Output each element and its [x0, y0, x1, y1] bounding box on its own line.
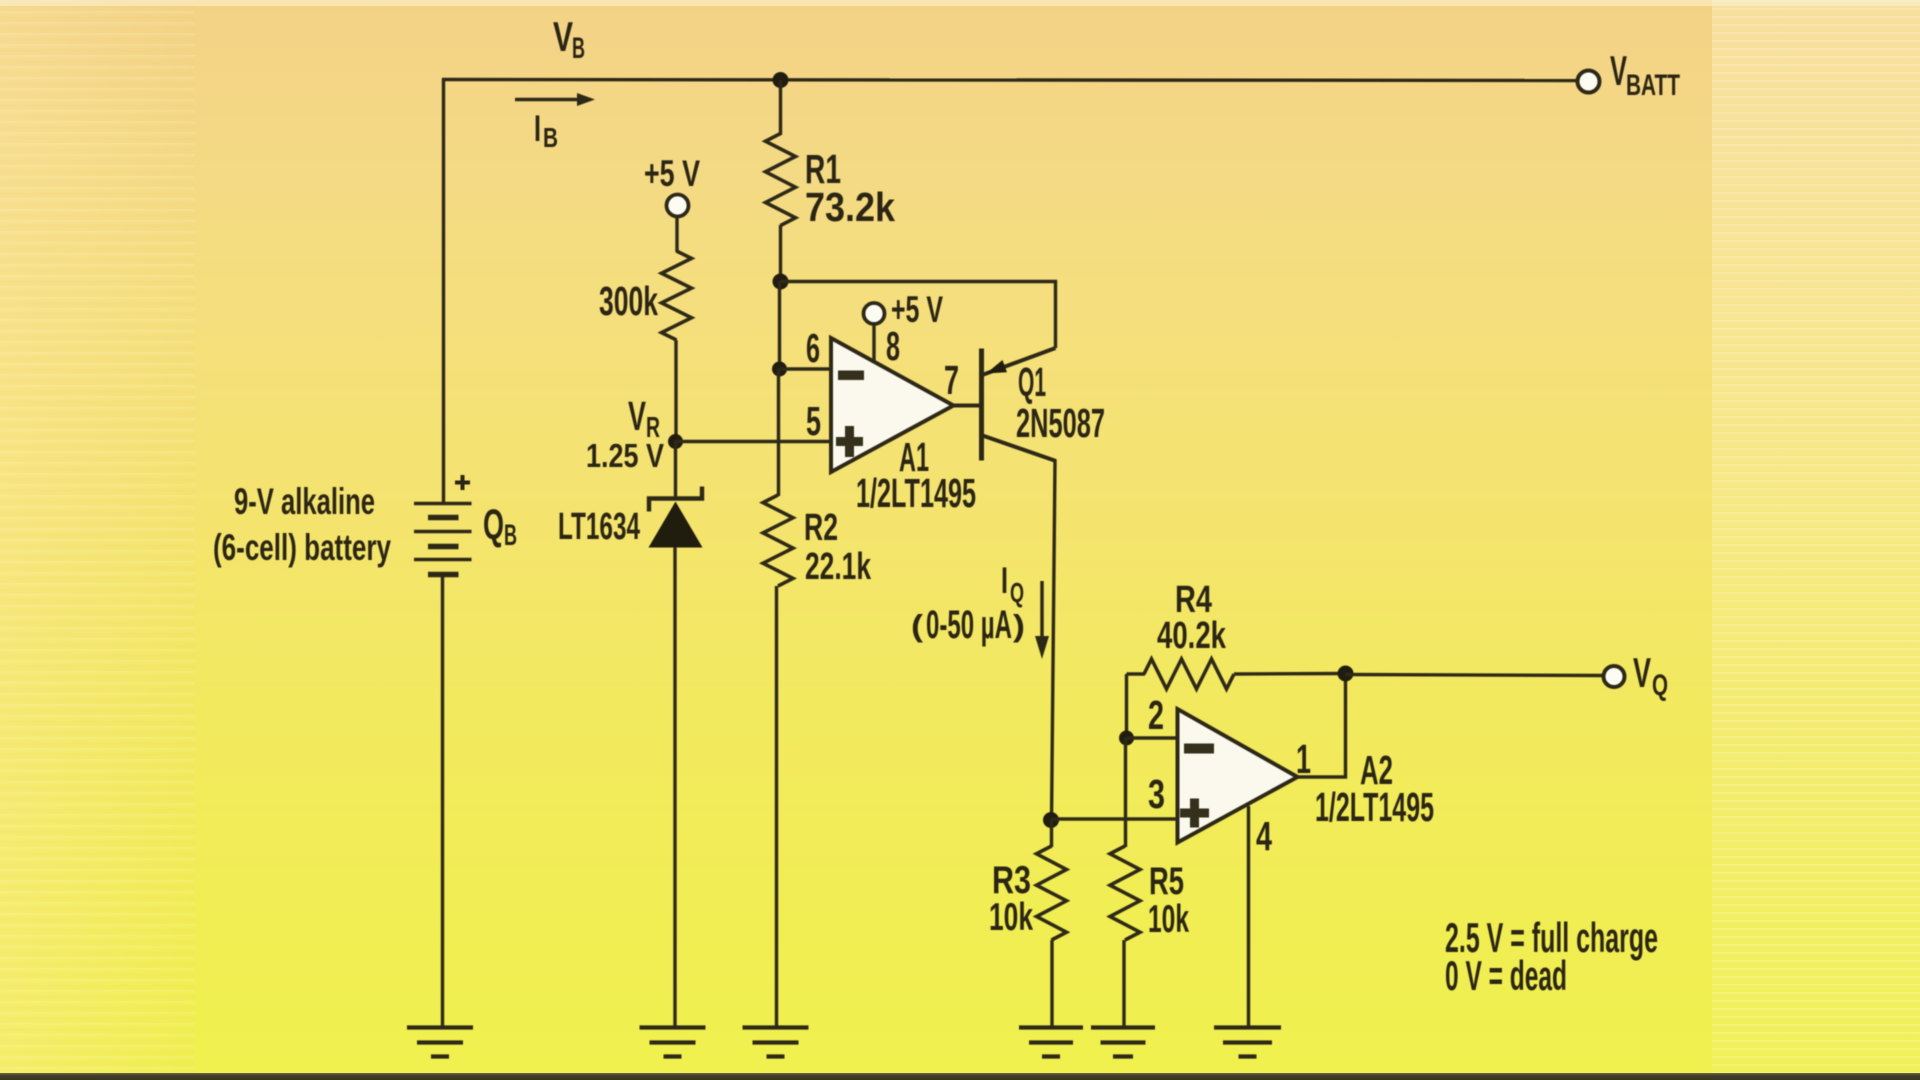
- ground LT1634: [640, 1025, 706, 1029]
- label VQ: [1633, 649, 1668, 702]
- op-amp A2 plus symbol: [1180, 809, 1209, 818]
- wire feedback node to Q1 emitter corner: [781, 282, 1056, 349]
- svg-text:10k: 10k: [1148, 898, 1189, 941]
- wire A2 output: [1297, 674, 1346, 778]
- svg-text:+5 V: +5 V: [644, 153, 700, 194]
- svg-text:4: 4: [1256, 813, 1272, 859]
- svg-text:Q1: Q1: [1018, 359, 1046, 405]
- node VQ output junction: [1338, 666, 1354, 682]
- svg-text:1.25 V: 1.25 V: [586, 437, 664, 474]
- wire pin3 node to A2 input: [1051, 817, 1178, 820]
- wire pin6 node down to R2: [777, 369, 780, 496]
- svg-text:R5: R5: [1149, 860, 1184, 903]
- svg-text:(: (: [911, 608, 924, 643]
- svg-text:BATT: BATT: [1626, 69, 1680, 102]
- wire battery positive lead: [442, 78, 445, 504]
- label VR: [628, 393, 660, 444]
- svg-text:22.1k: 22.1k: [805, 546, 872, 588]
- wire R5 to ground: [1122, 940, 1125, 1028]
- wire pin2 node down to R5: [1124, 738, 1127, 847]
- wire VB node to R1: [779, 80, 782, 135]
- svg-text:+5 V: +5 V: [891, 289, 943, 330]
- svg-text:B: B: [504, 519, 517, 552]
- ground R3: [1019, 1025, 1083, 1029]
- node A2 pin2: [1119, 731, 1134, 746]
- node A2 pin3 junction: [1043, 812, 1059, 828]
- arrow IQ current: [1040, 581, 1044, 640]
- transistor Q1 collector: [983, 436, 1057, 462]
- terminal +5V A1 pin8: [864, 303, 885, 324]
- node R1 bottom feedback: [773, 274, 789, 290]
- resistor 300k: [662, 251, 692, 340]
- wire Q1 collector down to IQ node: [1052, 460, 1056, 821]
- svg-text:9-V alkaline: 9-V alkaline: [234, 481, 375, 522]
- op-amp A2 minus symbol: [1184, 744, 1214, 754]
- wire 300k to VR node: [674, 340, 677, 443]
- diode LT1634 anode triangle: [649, 502, 703, 548]
- label IB: [534, 108, 558, 153]
- wire R3 to ground: [1050, 940, 1053, 1028]
- label QB: [483, 501, 517, 552]
- resistor R4 40.2k: [1144, 659, 1234, 689]
- svg-text:10k: 10k: [989, 896, 1033, 939]
- svg-text:0-50 µA: 0-50 µA: [926, 603, 1012, 647]
- svg-text:Q: Q: [1652, 669, 1668, 702]
- svg-text:300k: 300k: [599, 278, 658, 324]
- svg-text:(6-cell) battery: (6-cell) battery: [213, 527, 391, 568]
- wire pin2 node to A2 input: [1127, 736, 1178, 739]
- svg-text:5: 5: [806, 398, 821, 444]
- svg-text:V: V: [628, 393, 646, 439]
- wire A2 pin4 to ground: [1247, 806, 1250, 1028]
- svg-text:V: V: [1633, 649, 1651, 696]
- ground R2: [743, 1025, 809, 1029]
- wire R4 right lead: [1234, 672, 1346, 676]
- svg-text:B: B: [543, 122, 558, 153]
- wire A1 output pin7: [953, 404, 981, 408]
- wire R2 to ground: [775, 586, 778, 1028]
- svg-text:73.2k: 73.2k: [805, 184, 895, 230]
- op-amp A1 minus symbol: [838, 371, 864, 381]
- wire LT1634 to ground: [673, 547, 676, 1028]
- svg-text:Q: Q: [483, 501, 504, 549]
- svg-text:3: 3: [1148, 771, 1165, 817]
- wire A1 pin5 input: [675, 440, 831, 443]
- svg-text:R2: R2: [804, 507, 838, 549]
- svg-text:V: V: [1610, 47, 1627, 94]
- node VR: [668, 434, 683, 449]
- svg-text:1/2LT1495: 1/2LT1495: [1315, 784, 1434, 830]
- label VBATT: [1610, 47, 1680, 102]
- wire pin6 node to A1 inverting input: [779, 367, 831, 370]
- transistor Q1 base bar: [979, 349, 984, 461]
- svg-text:0 V = dead: 0 V = dead: [1445, 952, 1567, 999]
- resistor R3 10k: [1037, 846, 1067, 940]
- svg-text:I: I: [534, 108, 541, 149]
- resistor R1 73.2k: [766, 134, 796, 226]
- arrow IB current: [515, 98, 581, 102]
- label IQ: [1001, 560, 1024, 608]
- transistor Q1 emitter with arrow: [984, 348, 1056, 375]
- op-amp A1 triangle: [831, 338, 954, 472]
- op-amp A1 plus symbol: [836, 437, 863, 446]
- wire R4 left lead: [1127, 672, 1146, 675]
- battery plus sign: [455, 475, 470, 490]
- ground R5: [1091, 1025, 1155, 1029]
- svg-text:I: I: [1001, 560, 1008, 601]
- resistor R2 22.1k: [763, 495, 793, 586]
- wire feedback node down to pin6 node: [778, 281, 781, 370]
- ground A2 pin4: [1214, 1025, 1281, 1029]
- wire R1 to feedback node: [779, 225, 782, 283]
- wire +5V to 300k: [675, 216, 678, 252]
- wire R4 to pin2 node: [1125, 674, 1128, 739]
- diode LT1634 cathode bar: [649, 487, 702, 512]
- wire VR node to LT1634: [674, 441, 677, 499]
- svg-text:): ): [1013, 608, 1025, 643]
- svg-text:V: V: [553, 13, 573, 60]
- svg-text:Q: Q: [1010, 577, 1024, 608]
- label VB: [553, 13, 585, 65]
- svg-text:1/2LT1495: 1/2LT1495: [856, 470, 976, 516]
- svg-text:7: 7: [944, 357, 959, 403]
- svg-text:1: 1: [1296, 736, 1311, 782]
- op-amp A2 triangle: [1178, 709, 1298, 843]
- wire battery negative lead: [441, 574, 444, 1028]
- wire pin3 node down to R3: [1050, 820, 1053, 847]
- svg-text:B: B: [572, 32, 585, 65]
- wire output to VQ terminal: [1346, 675, 1604, 676]
- wire VB top rail: [442, 80, 1578, 81]
- svg-text:6: 6: [806, 325, 820, 371]
- wire pin8 to A1 top: [872, 324, 875, 362]
- terminal VQ: [1604, 666, 1625, 687]
- node VB junction at R1 top: [773, 72, 789, 88]
- label 0-50 uA: [911, 603, 1025, 647]
- terminal VBATT: [1578, 71, 1600, 93]
- node A1 pin6: [772, 362, 787, 377]
- terminal +5V left: [667, 195, 689, 217]
- svg-text:2N5087: 2N5087: [1016, 400, 1105, 446]
- svg-text:2: 2: [1148, 692, 1164, 738]
- svg-text:40.2k: 40.2k: [1157, 615, 1227, 657]
- ground battery: [407, 1025, 473, 1029]
- resistor R5 10k: [1110, 846, 1140, 940]
- battery QB plates: [414, 504, 472, 575]
- svg-text:LT1634: LT1634: [558, 506, 640, 548]
